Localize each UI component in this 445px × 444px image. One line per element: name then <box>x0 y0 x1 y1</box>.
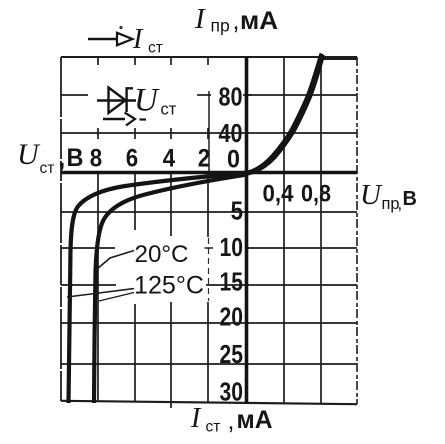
grid bottom border <box>61 401 357 404</box>
horizontal grid line y=212 (5 mA) <box>61 211 357 213</box>
svg-text:,: , <box>228 407 235 435</box>
diode D lead wire <box>97 99 136 101</box>
svg-text:125°C: 125°C <box>134 272 204 300</box>
svg-text:I: I <box>190 403 202 434</box>
svg-text:40: 40 <box>219 120 243 148</box>
horizontal grid line y=248 (10 mA) left segment <box>61 247 115 249</box>
svg-text:20°C: 20°C <box>135 241 189 268</box>
horizontal grid line y=323 (20 mA) <box>61 322 357 324</box>
svg-text:U: U <box>360 179 383 211</box>
svg-text:В: В <box>67 144 84 172</box>
svg-text:0,4: 0,4 <box>263 181 294 208</box>
svg-text:U: U <box>17 138 41 171</box>
tick stub below bottom border at x=171 <box>170 402 172 408</box>
cross tick on y=133 line at x=208 <box>207 128 209 139</box>
cross tick on y=133 line at x=135 <box>134 128 136 139</box>
diode D cathode bar with hook <box>127 88 133 112</box>
horizontal grid line y=133 right quadrant <box>246 132 357 134</box>
polarity arrow open head <box>125 113 136 126</box>
svg-text:ст: ст <box>148 40 163 57</box>
vertical grid line x=135 (6 V) upper segment <box>134 172 136 230</box>
svg-text:4: 4 <box>163 145 175 173</box>
svg-text:15: 15 <box>220 269 244 297</box>
svg-text:I: I <box>194 3 206 35</box>
cross tick on y=133 line at x=98 <box>97 128 99 139</box>
horizontal grid line y=285 (15 mA) right segment <box>206 284 357 286</box>
svg-text:мА: мА <box>240 7 278 35</box>
horizontal grid line y=95 left dash at border <box>61 94 88 96</box>
secondary leader line for 125C label <box>99 293 134 302</box>
svg-text:0,8: 0,8 <box>301 181 331 208</box>
vertical grid line x=135 (6 V) lower segment <box>134 304 136 402</box>
grid top border <box>61 56 357 58</box>
vertical grid line x=208 (2 V) lower segment <box>207 302 209 403</box>
svg-text:В: В <box>403 188 417 210</box>
svg-text:,: , <box>398 195 403 213</box>
svg-text:6: 6 <box>126 145 138 173</box>
svg-text:10: 10 <box>220 234 244 262</box>
polarity arrow trailing dash <box>140 118 147 120</box>
U axis (horizontal, thick) <box>61 171 357 174</box>
tick stub below top border at x=98 <box>97 57 99 65</box>
horizontal grid line y=95 right quadrant <box>246 94 357 96</box>
horizontal grid line y=364 (25 mA) <box>61 363 357 365</box>
svg-text:ст: ст <box>40 160 55 177</box>
legend current arrow shaft <box>88 38 117 40</box>
svg-text:30: 30 <box>220 379 244 407</box>
forward branch curve 20C <box>246 54 322 174</box>
leader line for 20C label <box>97 251 135 270</box>
vertical grid line x=98 (8 V) <box>97 172 99 402</box>
tick stub below top border at x=208 <box>207 57 209 65</box>
grid left border <box>60 57 62 401</box>
diode D triangle (anode) <box>109 88 126 114</box>
svg-text:0: 0 <box>227 146 240 174</box>
forward branch curve 125C (doubled stroke) <box>248 55 324 174</box>
svg-text:мА: мА <box>237 406 273 434</box>
legend current arrow open head <box>117 33 133 45</box>
I axis (vertical, thick) <box>245 57 249 404</box>
svg-text:2: 2 <box>198 145 210 173</box>
ink speck <box>119 26 122 29</box>
svg-text:ст: ст <box>206 419 221 436</box>
vertical grid line x=321 (0.8 V) <box>320 57 322 404</box>
vertical grid line x=208 (2 V) upper segment <box>207 172 209 237</box>
svg-text:,: , <box>233 7 240 35</box>
vertical grid line x=171 (4 V) lower segment <box>170 302 172 402</box>
tick stub below top border at x=171 <box>170 57 172 65</box>
svg-text:80: 80 <box>219 84 243 112</box>
vertical grid line x=284 (0.4 V) <box>283 57 285 404</box>
svg-text:5: 5 <box>231 198 243 226</box>
leader line for 125C label <box>67 289 134 298</box>
svg-text:8: 8 <box>90 145 102 173</box>
reverse branch curve 125C (left) <box>69 173 248 403</box>
grid right border (dashed scan) <box>356 57 358 404</box>
axis crossing stub of y=95 line <box>243 94 252 96</box>
svg-text:пр: пр <box>211 16 230 36</box>
cross tick on x=208 at y=248 <box>205 247 214 249</box>
vertical grid line x=171 (4 V) upper segment <box>170 172 172 236</box>
svg-text:ст: ст <box>161 101 177 119</box>
reverse branch curve 20C (right) <box>94 175 247 404</box>
horizontal grid line y=133 left quadrant <box>61 132 246 134</box>
svg-text:20: 20 <box>220 304 244 332</box>
polarity arrow under diode shaft <box>103 118 125 120</box>
horizontal grid line y=248 (10 mA) right segment <box>246 247 357 249</box>
vertical grid line x=209 upper segment in legend quadrant <box>208 91 210 172</box>
svg-text:I: I <box>132 24 144 55</box>
vertical grid line x=208 faint middle segment <box>208 238 210 301</box>
horizontal grid line y=285 (15 mA) left segment <box>61 284 116 286</box>
top border thick segment right of curve <box>320 56 357 60</box>
svg-text:U: U <box>134 83 160 119</box>
cross tick on y=133 line at x=171 <box>170 128 172 139</box>
svg-text:25: 25 <box>220 341 244 369</box>
svg-text:,: , <box>59 146 66 173</box>
horizontal grid line y=95 right dash near axis <box>197 94 211 96</box>
tick stub below top border at x=135 <box>134 57 136 65</box>
